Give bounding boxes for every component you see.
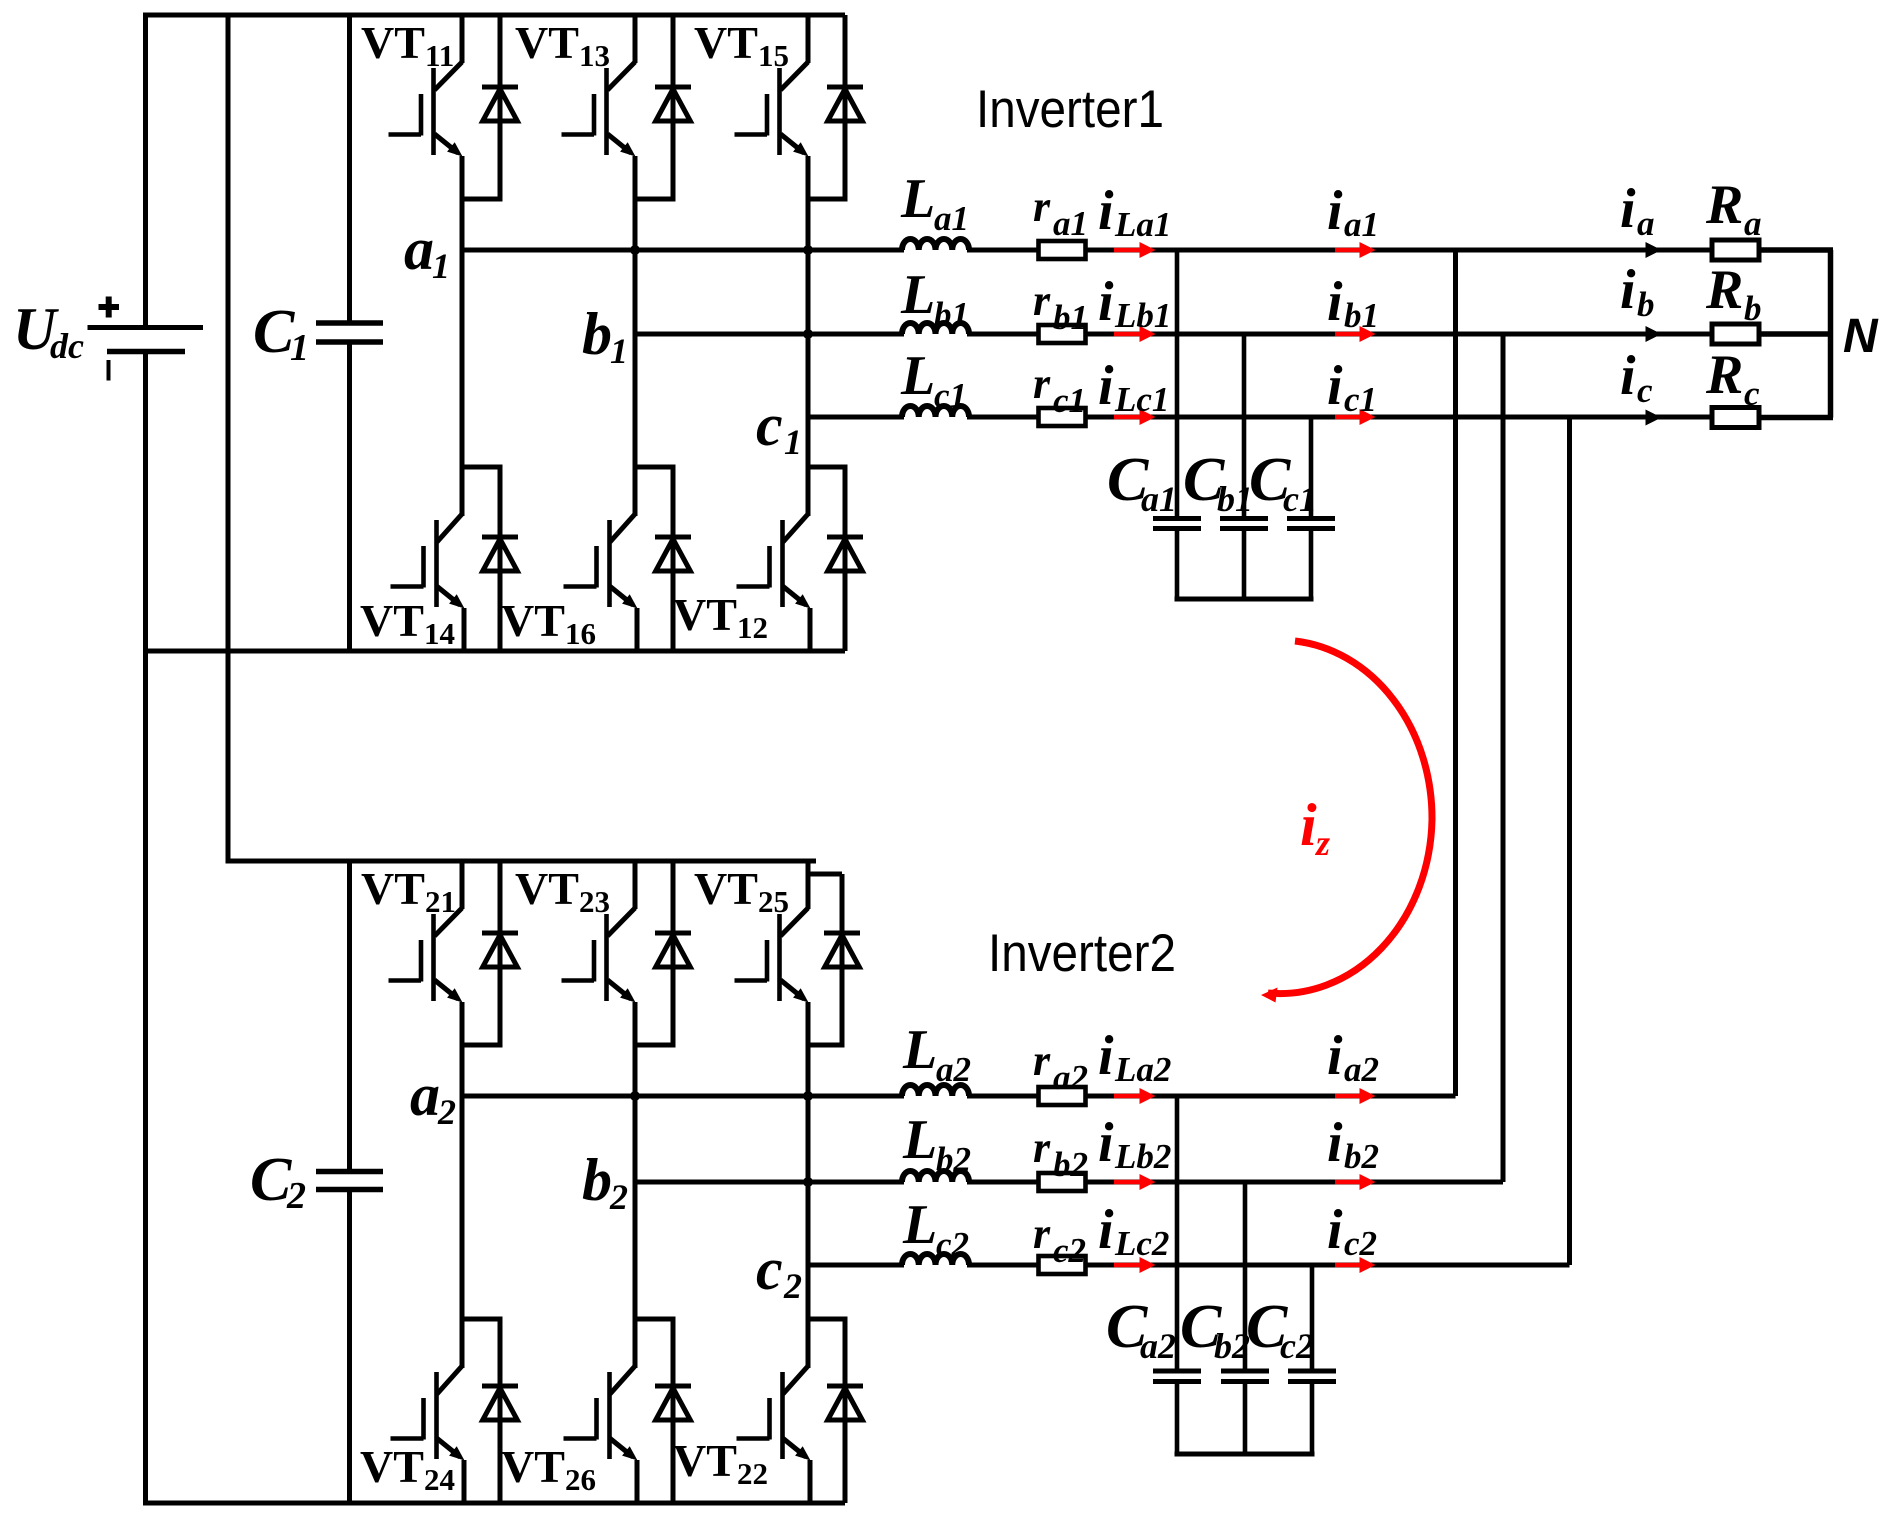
diode D23 (antiparallel with VT23): [671, 861, 676, 1048]
wire interconnect phase c: [1567, 417, 1572, 1265]
svg-text:i: i: [1098, 355, 1114, 417]
wire leg phase b2 upper: [633, 1045, 638, 1182]
wire leg phase c2 lower: [806, 1265, 811, 1368]
svg-text:b2: b2: [936, 1140, 971, 1179]
svg-text:c2: c2: [1280, 1326, 1314, 1366]
capacitor Cb1: [1242, 334, 1247, 516]
svg-text:c: c: [1744, 374, 1760, 413]
svg-text:i: i: [1327, 1025, 1343, 1087]
svg-text:r: r: [1033, 1036, 1051, 1085]
svg-text:Lb2: Lb2: [1114, 1137, 1171, 1176]
wire leg phase a1 lower: [460, 250, 465, 516]
svg-text:11: 11: [425, 38, 454, 73]
svg-text:i: i: [1327, 1199, 1343, 1261]
svg-text:a1: a1: [934, 199, 969, 238]
wire Rb to N: [1759, 331, 1833, 337]
svg-text:L: L: [900, 345, 935, 407]
svg-text:b: b: [1744, 289, 1762, 328]
svg-text:c1: c1: [1053, 381, 1086, 420]
diode D16 (antiparallel with VT16): [671, 467, 676, 651]
svg-text:L: L: [902, 1194, 937, 1256]
svg-text:i: i: [1098, 1025, 1114, 1087]
svg-text:VT: VT: [501, 595, 565, 646]
diode D12 (antiparallel with VT12): [843, 467, 848, 651]
svg-text:VT: VT: [673, 1435, 737, 1486]
resistor Ra: [1712, 240, 1759, 260]
svg-text:Lc1: Lc1: [1114, 380, 1169, 419]
transistor VT15: [806, 15, 811, 63]
svg-text:25: 25: [758, 884, 789, 919]
capacitor C1: [347, 15, 352, 321]
wire ra1 onward: [1086, 248, 1717, 253]
current arrow iLc1: [1114, 415, 1143, 420]
transistor VT25: [806, 861, 811, 909]
wire Ra to N: [1759, 247, 1833, 253]
junction dot phase a1 x leg c: [803, 245, 813, 255]
svg-text:i: i: [1098, 271, 1114, 333]
svg-text:N: N: [1843, 310, 1879, 363]
wire Lc1 to rc1: [967, 415, 1062, 420]
svg-text:b: b: [582, 301, 612, 367]
resistor Rc: [1712, 408, 1759, 428]
wire phase b2 output: [635, 1180, 904, 1185]
svg-text:1: 1: [432, 246, 450, 286]
inductor Lc2: [902, 1254, 969, 1265]
svg-text:13: 13: [579, 38, 610, 73]
svg-text:b2: b2: [1053, 1145, 1088, 1184]
transistor VT16: [633, 465, 676, 470]
inductor Lc1: [902, 406, 969, 417]
transistor VT23: [633, 861, 638, 909]
svg-text:Lc2: Lc2: [1114, 1224, 1169, 1263]
capacitor Ca1: [1175, 250, 1180, 516]
svg-text:a: a: [1637, 204, 1655, 243]
resistor ra1: [1039, 241, 1086, 259]
diode D25 (antiparallel with VT25): [840, 874, 845, 1048]
svg-text:c1: c1: [1283, 479, 1317, 519]
wire leg phase a2 lower: [460, 1096, 465, 1368]
wire inverter2 top bus elbow to diode: [808, 861, 842, 874]
resistor Rb: [1712, 324, 1759, 344]
junction dot phase b1 x leg c: [803, 329, 813, 339]
transistor VT26: [633, 1317, 676, 1322]
svg-text:VT: VT: [501, 1441, 565, 1492]
junction dot phase a1 x leg b: [630, 245, 640, 255]
svg-text:R: R: [1705, 174, 1743, 236]
resistor rc2: [1039, 1256, 1086, 1274]
inductor La2: [902, 1085, 969, 1096]
wire capacitor bank1 bottom bus: [1175, 597, 1314, 602]
svg-text:Lb1: Lb1: [1114, 296, 1171, 335]
svg-text:i: i: [1327, 355, 1343, 417]
svg-text:a: a: [404, 216, 434, 282]
diode D13 (antiparallel with VT13): [671, 15, 676, 202]
transistor VT14: [460, 465, 503, 470]
junction dot phase a2 x leg c: [803, 1091, 813, 1101]
svg-text:r: r: [1033, 359, 1051, 408]
svg-text:2: 2: [783, 1266, 802, 1306]
wire leg phase b2 lower: [633, 1182, 638, 1368]
svg-text:i: i: [1098, 180, 1114, 242]
svg-text:r: r: [1033, 276, 1051, 325]
svg-text:i: i: [1620, 259, 1636, 321]
svg-text:b1: b1: [1344, 296, 1379, 335]
resistor rb2: [1039, 1173, 1086, 1191]
resistor rb1: [1039, 325, 1086, 343]
diode D22 (antiparallel with VT22): [843, 1319, 848, 1503]
svg-text:VT: VT: [361, 863, 425, 914]
wire rb1 onward: [1086, 332, 1717, 337]
svg-text:C: C: [250, 1146, 292, 1214]
resistor rc1: [1039, 408, 1086, 426]
svg-text:z: z: [1314, 823, 1330, 863]
wire phase a1 output: [462, 248, 904, 253]
svg-text:VT: VT: [694, 17, 758, 68]
svg-text:21: 21: [425, 884, 456, 919]
svg-text:1: 1: [784, 422, 802, 462]
svg-text:c2: c2: [936, 1225, 969, 1264]
inductor Lb1: [902, 323, 969, 334]
svg-text:b1: b1: [934, 295, 969, 334]
wire La1 to ra1: [967, 248, 1062, 253]
wire leg phase b1 upper: [633, 199, 638, 334]
svg-text:c1: c1: [1344, 380, 1377, 419]
junction dot phase b2 x leg c: [803, 1177, 813, 1187]
svg-text:i: i: [1620, 345, 1636, 407]
svg-text:L: L: [902, 1109, 937, 1171]
transistor VT11: [460, 15, 465, 63]
diode D21 (antiparallel with VT21): [498, 861, 503, 1048]
current arrow ia2: [1335, 1094, 1363, 1099]
svg-text:24: 24: [424, 1462, 455, 1497]
svg-text:1: 1: [290, 327, 309, 369]
wire Lb2 to rb2: [967, 1180, 1062, 1185]
wire inverter1 negative rail: [143, 649, 845, 654]
svg-text:16: 16: [565, 616, 596, 651]
wire phase b1 output: [635, 332, 904, 337]
wire capacitor bank2 bottom bus: [1175, 1452, 1315, 1457]
svg-text:i: i: [1327, 271, 1343, 333]
svg-text:1: 1: [610, 331, 628, 371]
wire rc2 onward: [1086, 1263, 1570, 1268]
wire Rc to N: [1759, 415, 1833, 421]
wire bottom DC bus: [143, 1501, 845, 1506]
svg-text:i: i: [1620, 178, 1636, 240]
svg-text:Inverter2: Inverter2: [988, 924, 1176, 983]
svg-text:c2: c2: [1053, 1231, 1086, 1270]
svg-text:c2: c2: [1344, 1224, 1377, 1263]
svg-text:i: i: [1098, 1199, 1114, 1261]
junction dot phase a2 x leg b: [630, 1091, 640, 1101]
svg-text:VT: VT: [673, 589, 737, 640]
diode D15 (antiparallel with VT15): [843, 15, 848, 202]
svg-text:2: 2: [609, 1177, 628, 1217]
transistor VT21: [460, 861, 465, 909]
svg-text:R: R: [1705, 259, 1743, 321]
svg-text:a2: a2: [1140, 1326, 1176, 1366]
wire phase c1 output: [808, 415, 904, 420]
wire interconnect phase a (inverter2 to load node): [1453, 250, 1458, 1096]
wire rb2 onward: [1086, 1180, 1504, 1185]
current arrow iLa2: [1114, 1094, 1143, 1099]
current arrow iLa1: [1114, 248, 1143, 253]
wire Lb1 to rb1: [967, 332, 1062, 337]
svg-text:VT: VT: [360, 1441, 424, 1492]
svg-text:L: L: [902, 1019, 937, 1081]
current arrow iLb1: [1114, 332, 1143, 337]
svg-text:L: L: [900, 264, 935, 326]
svg-text:a2: a2: [936, 1050, 971, 1089]
svg-text:VT: VT: [694, 863, 758, 914]
svg-text:2: 2: [286, 1175, 306, 1217]
diode D14 (antiparallel with VT14): [498, 467, 503, 651]
current arrow ic (load): [1646, 410, 1662, 426]
capacitor Cc2: [1310, 1265, 1315, 1369]
wire leg phase a2 upper: [460, 1045, 465, 1096]
svg-text:VT: VT: [515, 863, 579, 914]
wire leg phase a1 upper: [460, 199, 465, 250]
svg-text:i: i: [1098, 1112, 1114, 1174]
capacitor Cb2: [1243, 1182, 1248, 1369]
current arrow ib (load): [1646, 326, 1662, 342]
svg-text:a1: a1: [1344, 205, 1379, 244]
capacitor C2: [347, 861, 352, 1169]
svg-text:i: i: [1300, 792, 1317, 858]
svg-text:b: b: [582, 1147, 612, 1213]
svg-text:dc: dc: [50, 326, 84, 366]
resistor ra2: [1039, 1087, 1086, 1105]
svg-text:b: b: [1637, 285, 1655, 324]
wire leg phase c1 upper: [806, 199, 811, 417]
capacitor Ca2: [1175, 1096, 1180, 1369]
capacitor Cc1: [1309, 417, 1314, 516]
current arrow ib1: [1335, 332, 1363, 337]
wire ra2 onward: [1086, 1094, 1456, 1099]
svg-text:c: c: [1637, 371, 1653, 410]
svg-text:a2: a2: [1344, 1050, 1379, 1089]
transistor VT22: [806, 1317, 848, 1322]
svg-text:b1: b1: [1053, 298, 1088, 337]
svg-text:a: a: [1744, 204, 1762, 243]
transistor VT12: [806, 465, 848, 470]
svg-text:R: R: [1705, 344, 1743, 406]
current arrow ib2: [1335, 1180, 1363, 1185]
svg-text:22: 22: [737, 1456, 768, 1491]
svg-text:VT: VT: [361, 17, 425, 68]
svg-text:c: c: [756, 392, 783, 458]
svg-text:r: r: [1033, 1209, 1051, 1258]
svg-text:b2: b2: [1344, 1137, 1379, 1176]
diode D26 (antiparallel with VT26): [671, 1319, 676, 1503]
transistor VT24: [460, 1317, 503, 1322]
diode D11 (antiparallel with VT11): [498, 15, 503, 202]
svg-text:i: i: [1327, 180, 1343, 242]
svg-text:Inverter1: Inverter1: [976, 80, 1164, 139]
wire inverter2 top bus: [226, 859, 817, 864]
wire top DC bus: [143, 13, 845, 18]
svg-text:26: 26: [565, 1462, 596, 1497]
inductor La1: [902, 239, 969, 250]
svg-text:La2: La2: [1114, 1050, 1171, 1089]
svg-text:a: a: [410, 1062, 440, 1128]
wire leg phase b1 lower: [633, 334, 638, 516]
wire rc1 onward: [1086, 415, 1717, 420]
svg-text:2: 2: [437, 1092, 456, 1132]
wire phase c2 output: [808, 1263, 904, 1268]
svg-text:a2: a2: [1053, 1058, 1088, 1097]
wire leg phase c2 upper: [806, 1045, 811, 1265]
svg-text:i: i: [1327, 1112, 1343, 1174]
current arrow ia (load): [1646, 242, 1662, 258]
svg-text:12: 12: [737, 610, 768, 645]
diode D24 (antiparallel with VT24): [498, 1319, 503, 1503]
svg-text:b1: b1: [1217, 479, 1253, 519]
transistor VT13: [633, 15, 638, 63]
wire phase a2 output: [462, 1094, 904, 1099]
svg-text:VT: VT: [515, 17, 579, 68]
wire DC positive link to inverter2: [226, 15, 231, 861]
svg-text:La1: La1: [1114, 205, 1171, 244]
svg-text:r: r: [1033, 182, 1051, 231]
svg-text:c1: c1: [934, 376, 967, 415]
svg-text:23: 23: [579, 884, 610, 919]
svg-text:L: L: [900, 168, 935, 230]
svg-text:C: C: [253, 298, 295, 366]
current arrow ic1: [1335, 415, 1363, 420]
svg-text:a1: a1: [1141, 479, 1177, 519]
svg-text:c: c: [756, 1236, 783, 1302]
current arrow iLb2: [1114, 1180, 1143, 1185]
DC source Udc battery: [143, 15, 148, 325]
current arrow iLc2: [1114, 1263, 1143, 1268]
svg-text:14: 14: [424, 616, 455, 651]
svg-text:r: r: [1033, 1123, 1051, 1172]
svg-text:VT: VT: [360, 595, 424, 646]
circulating current arc iz: [1268, 641, 1432, 994]
current arrow ic2: [1335, 1263, 1363, 1268]
svg-text:a1: a1: [1053, 204, 1088, 243]
wire leg phase c1 lower: [806, 417, 811, 516]
svg-text:b2: b2: [1214, 1326, 1250, 1366]
svg-text:15: 15: [758, 38, 789, 73]
wire load neutral vertical: [1828, 250, 1834, 418]
wire La2 to ra2: [967, 1094, 1062, 1099]
wire Lc2 to rc2: [967, 1263, 1062, 1268]
current arrow ia1: [1335, 248, 1363, 253]
inductor Lb2: [902, 1171, 969, 1182]
wire interconnect phase b: [1501, 334, 1506, 1182]
